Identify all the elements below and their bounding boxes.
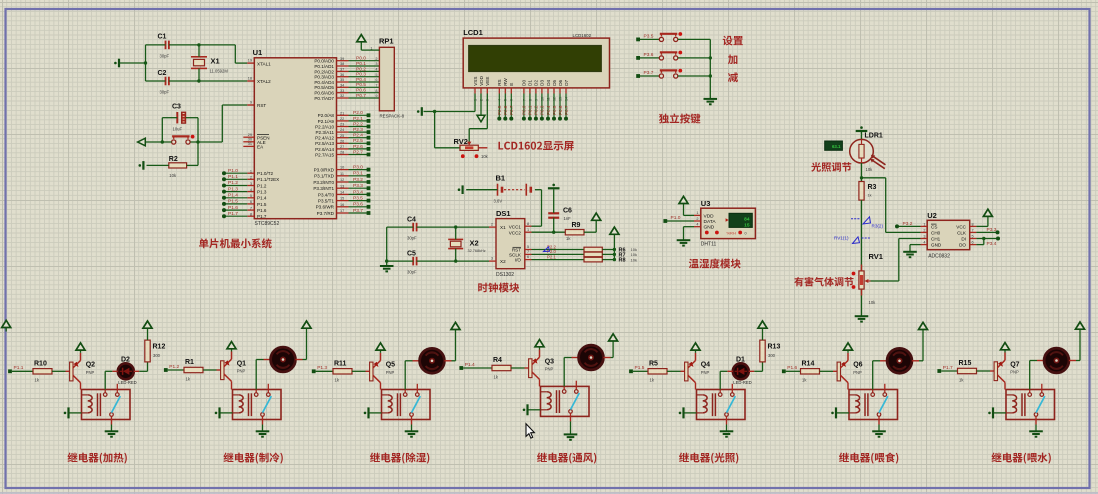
svg-text:P1.4: P1.4 bbox=[465, 362, 475, 368]
node P3.4 bbox=[996, 237, 1000, 241]
svg-text:P1.0/T2: P1.0/T2 bbox=[257, 171, 274, 176]
svg-text:P1.3: P1.3 bbox=[257, 190, 267, 195]
pin stubs U2 bbox=[921, 225, 928, 227]
svg-text:U2: U2 bbox=[927, 211, 937, 220]
wire LCD VDD bbox=[480, 94, 482, 116]
svg-text:3: 3 bbox=[491, 257, 493, 261]
node P1.2 bbox=[164, 368, 168, 372]
terminal arrow reset bbox=[138, 138, 146, 146]
svg-text:D1: D1 bbox=[736, 356, 745, 363]
svg-text:R3: R3 bbox=[868, 184, 877, 191]
svg-text:P2.7: P2.7 bbox=[509, 105, 514, 115]
svg-text:RP1: RP1 bbox=[379, 37, 394, 46]
svg-text:P1.5: P1.5 bbox=[635, 365, 645, 371]
wire bbox=[912, 360, 919, 362]
svg-text:P3.5: P3.5 bbox=[353, 196, 363, 202]
LDR lux display bbox=[825, 141, 843, 150]
power arrow Q2 emitter bbox=[76, 343, 85, 350]
svg-text:RV1: RV1 bbox=[869, 252, 883, 261]
svg-text:D6: D6 bbox=[558, 79, 563, 85]
svg-text:6: 6 bbox=[375, 78, 377, 82]
IC U3 DHT11 bbox=[701, 208, 756, 238]
wire bbox=[134, 370, 140, 372]
svg-text:1: 1 bbox=[696, 211, 698, 215]
potentiometer RV1 bbox=[859, 271, 864, 289]
svg-text:R2: R2 bbox=[169, 156, 178, 163]
svg-text:P1.2: P1.2 bbox=[169, 364, 179, 370]
svg-text:P0.0: P0.0 bbox=[522, 105, 527, 115]
svg-text:DATA: DATA bbox=[704, 219, 717, 225]
coil return bar bbox=[836, 412, 849, 414]
svg-text:P0.7: P0.7 bbox=[356, 93, 366, 99]
wire GND U3 bbox=[684, 226, 695, 228]
svg-text:P1.7: P1.7 bbox=[943, 365, 953, 371]
wire bbox=[413, 360, 420, 362]
wire bbox=[316, 370, 333, 372]
svg-text:P2.3: P2.3 bbox=[353, 127, 363, 133]
button key3 bbox=[659, 74, 663, 78]
svg-text:%RH: %RH bbox=[727, 230, 736, 235]
power arrow Q6 emitter bbox=[844, 343, 853, 350]
svg-text:Q7: Q7 bbox=[1010, 361, 1019, 368]
ground bbox=[105, 430, 119, 432]
power arrow pullups bbox=[610, 227, 619, 234]
svg-text:Q6: Q6 bbox=[853, 362, 862, 369]
svg-text:R4: R4 bbox=[493, 357, 502, 364]
svg-text:P2.7/A15: P2.7/A15 bbox=[315, 152, 334, 157]
label clock module bbox=[478, 283, 519, 293]
svg-text:P1.1: P1.1 bbox=[228, 174, 238, 180]
coil return bar bbox=[684, 412, 697, 414]
svg-text:0: 0 bbox=[745, 231, 747, 235]
wire bbox=[147, 164, 169, 166]
svg-text:Q3: Q3 bbox=[545, 358, 554, 365]
svg-text:P1.3: P1.3 bbox=[228, 186, 238, 192]
node P3.5 bbox=[636, 38, 640, 42]
pin stubs DS1 bbox=[489, 226, 496, 228]
wire bbox=[169, 44, 235, 46]
label LCD module bbox=[498, 141, 573, 150]
svg-text:R3(2): R3(2) bbox=[872, 224, 884, 229]
wire bbox=[602, 249, 614, 251]
wire GND U2 bbox=[910, 244, 921, 246]
wire bbox=[169, 80, 247, 82]
svg-text:P0.5/AD5: P0.5/AD5 bbox=[314, 85, 334, 90]
svg-text:RV1(1): RV1(1) bbox=[834, 235, 849, 240]
svg-text:P2.5/A13: P2.5/A13 bbox=[315, 141, 334, 146]
svg-text:CS: CS bbox=[931, 224, 937, 229]
wire bbox=[572, 357, 579, 359]
power arrow Q1 emitter bbox=[227, 342, 236, 349]
svg-text:15: 15 bbox=[744, 222, 750, 228]
svg-text:2: 2 bbox=[696, 217, 698, 221]
svg-text:7: 7 bbox=[375, 83, 377, 87]
svg-text:5: 5 bbox=[375, 73, 377, 77]
svg-text:P1.2: P1.2 bbox=[257, 183, 267, 188]
wire bbox=[727, 370, 733, 372]
svg-text:P2.5: P2.5 bbox=[353, 138, 363, 144]
svg-text:RW: RW bbox=[503, 78, 508, 86]
wire bbox=[640, 38, 659, 40]
svg-text:C5: C5 bbox=[407, 251, 416, 258]
power arrow motor bbox=[1076, 322, 1085, 329]
IC DS1 DS1302 bbox=[496, 219, 525, 269]
label minus bbox=[728, 72, 738, 82]
svg-text:R13: R13 bbox=[768, 344, 781, 351]
svg-text:P3.4/T0: P3.4/T0 bbox=[318, 192, 335, 197]
resistor R14 bbox=[801, 369, 820, 374]
wire bbox=[411, 420, 413, 425]
svg-text:P3.1/TXD: P3.1/TXD bbox=[314, 174, 335, 179]
svg-text:10k: 10k bbox=[866, 167, 874, 172]
svg-text:U1: U1 bbox=[253, 48, 263, 57]
svg-text:P0.4: P0.4 bbox=[356, 77, 366, 83]
svg-text:2: 2 bbox=[491, 223, 493, 227]
LCD LCD1 bbox=[463, 38, 609, 88]
svg-text:P1.5: P1.5 bbox=[228, 199, 238, 205]
coil return bar bbox=[528, 409, 541, 411]
svg-text:1nF: 1nF bbox=[564, 216, 572, 221]
svg-text:31: 31 bbox=[248, 142, 252, 146]
label set bbox=[723, 36, 743, 46]
wire CS net bbox=[897, 225, 921, 227]
wire bbox=[434, 112, 436, 148]
svg-text:VSS: VSS bbox=[473, 77, 478, 86]
wire RP1 pin1 bbox=[361, 49, 379, 51]
power arrow U3 bbox=[679, 196, 688, 203]
power arrow motor bbox=[919, 322, 928, 329]
svg-text:P2.2: P2.2 bbox=[353, 121, 363, 127]
svg-text:P0.5: P0.5 bbox=[356, 82, 366, 88]
wire bbox=[880, 360, 887, 362]
transistor Q7 bbox=[994, 362, 997, 381]
resistor R2 bbox=[169, 163, 187, 168]
motor dehumidify bbox=[420, 348, 445, 373]
ground RV1 bbox=[855, 315, 869, 317]
reset button bbox=[172, 140, 176, 144]
svg-text:P0.4/AD4: P0.4/AD4 bbox=[314, 80, 334, 85]
label relay heating bbox=[67, 452, 126, 463]
svg-text:RV2: RV2 bbox=[454, 137, 468, 146]
ground tap bar bbox=[118, 59, 120, 68]
svg-text:Q1: Q1 bbox=[237, 360, 246, 367]
svg-text:PNP: PNP bbox=[701, 370, 710, 375]
svg-text:LCD1602: LCD1602 bbox=[573, 33, 592, 38]
ground bbox=[256, 430, 270, 432]
svg-text:P1.2: P1.2 bbox=[228, 180, 238, 186]
wire bbox=[603, 357, 610, 359]
ground tap bar C6 bbox=[548, 187, 560, 189]
relay ventilation bbox=[541, 386, 590, 416]
svg-text:32.768kHz: 32.768kHz bbox=[468, 249, 486, 253]
resistor R8 bbox=[584, 257, 602, 262]
potentiometer RV2 bbox=[460, 145, 478, 150]
wire bbox=[463, 367, 492, 369]
wire bbox=[678, 57, 711, 59]
svg-text:19: 19 bbox=[248, 59, 252, 63]
svg-text:C2: C2 bbox=[158, 70, 167, 77]
svg-text:P0.2: P0.2 bbox=[356, 66, 366, 72]
svg-text:XTAL2: XTAL2 bbox=[257, 79, 271, 84]
svg-text:8: 8 bbox=[375, 89, 377, 93]
svg-text:P1.4: P1.4 bbox=[257, 196, 267, 201]
capacitor C5 bbox=[412, 257, 414, 266]
resistor R6 bbox=[584, 247, 602, 252]
power arrow R12 bbox=[143, 321, 152, 328]
resistor R7 bbox=[584, 252, 602, 257]
wire LCD VEE bbox=[486, 94, 488, 129]
label relay light bbox=[679, 452, 738, 463]
motor water bbox=[1044, 348, 1069, 373]
wire bbox=[12, 370, 33, 372]
svg-text:PNP: PNP bbox=[1010, 370, 1019, 375]
svg-text:P0.0: P0.0 bbox=[356, 56, 366, 62]
wire bbox=[532, 253, 585, 255]
node P1.3 bbox=[312, 369, 316, 373]
motor ventilation bbox=[579, 345, 604, 370]
svg-text:7: 7 bbox=[527, 250, 529, 254]
wire bbox=[444, 360, 451, 362]
ground keys bbox=[704, 98, 718, 100]
wire bbox=[570, 416, 572, 421]
svg-text:30pF: 30pF bbox=[407, 270, 417, 275]
transistor Q1 bbox=[221, 361, 224, 380]
wire bbox=[52, 370, 66, 372]
svg-text:Q2: Q2 bbox=[86, 362, 95, 369]
svg-text:5: 5 bbox=[527, 245, 529, 249]
svg-text:P0.6: P0.6 bbox=[558, 105, 563, 115]
svg-text:P1.6: P1.6 bbox=[257, 208, 267, 213]
photoresistor LDR1 bbox=[850, 139, 874, 163]
crystal X1 bbox=[191, 56, 207, 58]
svg-text:4: 4 bbox=[375, 68, 377, 72]
power arrow stray left bbox=[2, 320, 11, 327]
svg-text:P0.3/AD3: P0.3/AD3 bbox=[314, 75, 334, 80]
svg-text:I/O: I/O bbox=[515, 258, 522, 263]
svg-text:LCD1: LCD1 bbox=[463, 28, 483, 37]
capacitor C6 bbox=[548, 212, 559, 214]
svg-text:63.1: 63.1 bbox=[832, 144, 841, 149]
wire keys bus bbox=[709, 39, 711, 99]
svg-text:6: 6 bbox=[527, 255, 529, 259]
wire bbox=[726, 420, 728, 425]
ground bbox=[564, 433, 578, 435]
svg-text:P2.4: P2.4 bbox=[353, 133, 363, 139]
power arrow motor bbox=[451, 322, 460, 329]
wire bbox=[667, 370, 681, 372]
wire bbox=[762, 328, 764, 340]
label relay feeding bbox=[839, 452, 898, 463]
node XTAL gnd tap bbox=[144, 61, 147, 64]
capacitor C4 bbox=[412, 223, 414, 232]
svg-text:P2.6/A14: P2.6/A14 bbox=[315, 147, 334, 152]
svg-text:P1.1/T2EX: P1.1/T2EX bbox=[257, 177, 279, 182]
resistor pack RP1 bbox=[379, 47, 394, 111]
svg-text:P1.4: P1.4 bbox=[228, 193, 238, 199]
svg-text:R11: R11 bbox=[334, 361, 347, 368]
node P3.3 bbox=[996, 230, 1000, 234]
svg-text:2: 2 bbox=[375, 57, 377, 61]
resistor R5 bbox=[648, 369, 667, 374]
power arrow R13 bbox=[758, 321, 767, 328]
wire bbox=[633, 370, 648, 372]
svg-text:P2.3/A11: P2.3/A11 bbox=[315, 130, 334, 135]
svg-text:U3: U3 bbox=[701, 199, 711, 208]
coil return bar bbox=[369, 412, 382, 414]
label DHT module bbox=[689, 259, 741, 269]
ground C4C5 bbox=[380, 265, 394, 267]
DHT11 display bbox=[729, 213, 752, 227]
IC U1 STC89C52 bbox=[254, 58, 336, 219]
transistor Q4 bbox=[685, 362, 688, 381]
resistor R15 bbox=[958, 368, 977, 373]
wire bbox=[553, 190, 555, 213]
svg-text:CLK: CLK bbox=[957, 230, 967, 235]
svg-text:D4: D4 bbox=[546, 79, 551, 85]
svg-text:DHT11: DHT11 bbox=[701, 242, 717, 248]
svg-text:P3.3: P3.3 bbox=[353, 183, 363, 189]
label relay dehumidify bbox=[370, 452, 429, 463]
svg-text:P3.3/INT1: P3.3/INT1 bbox=[313, 186, 334, 191]
ground bbox=[720, 430, 734, 432]
svg-text:84: 84 bbox=[744, 216, 750, 222]
svg-text:P3.7: P3.7 bbox=[644, 70, 654, 76]
power arrow motor bbox=[302, 321, 311, 328]
svg-text:GND: GND bbox=[704, 225, 715, 231]
svg-text:3.6V: 3.6V bbox=[494, 199, 503, 204]
svg-text:VEE: VEE bbox=[485, 77, 490, 86]
svg-text:P3.2/INT0: P3.2/INT0 bbox=[313, 180, 334, 185]
motor feeding bbox=[887, 348, 912, 373]
svg-text:EA: EA bbox=[257, 145, 264, 150]
svg-text:P2.1: P2.1 bbox=[547, 254, 556, 259]
wire bbox=[640, 57, 659, 59]
svg-text:P0.5: P0.5 bbox=[552, 105, 557, 115]
svg-text:P3.5: P3.5 bbox=[644, 33, 654, 39]
svg-text:P0.6: P0.6 bbox=[356, 88, 366, 94]
svg-text:P3.3: P3.3 bbox=[987, 227, 997, 233]
svg-text:P0.7/AD7: P0.7/AD7 bbox=[314, 96, 334, 101]
svg-text:P0.6/AD6: P0.6/AD6 bbox=[314, 91, 334, 96]
wire bbox=[112, 370, 118, 372]
svg-text:P0.2: P0.2 bbox=[534, 105, 539, 115]
wire bbox=[861, 289, 863, 316]
transistor Q3 bbox=[529, 359, 532, 378]
wire bbox=[749, 370, 755, 372]
svg-text:30pF: 30pF bbox=[407, 236, 417, 241]
svg-text:DO: DO bbox=[959, 243, 966, 248]
node P3.2 bbox=[895, 224, 899, 228]
wire CH1 net bbox=[871, 280, 899, 282]
label gas module bbox=[794, 277, 853, 286]
svg-text:9: 9 bbox=[250, 101, 252, 105]
ground U3 bbox=[677, 239, 691, 241]
svg-text:8: 8 bbox=[527, 222, 529, 226]
wire bbox=[162, 117, 177, 119]
svg-text:D2: D2 bbox=[534, 79, 539, 85]
svg-text:CH1: CH1 bbox=[931, 237, 941, 242]
svg-text:P1.5: P1.5 bbox=[257, 202, 267, 207]
power arrow motor bbox=[609, 334, 618, 341]
svg-text:R1: R1 bbox=[185, 359, 194, 366]
svg-text:P1.0: P1.0 bbox=[228, 168, 238, 174]
svg-text:10k: 10k bbox=[869, 300, 877, 305]
crystal X2 bbox=[448, 238, 463, 240]
wire bbox=[602, 253, 614, 255]
node P1.5 bbox=[629, 369, 633, 373]
svg-text:10uF: 10uF bbox=[173, 127, 183, 132]
wire bbox=[861, 163, 863, 182]
svg-text:LDR1: LDR1 bbox=[865, 132, 883, 139]
relay water bbox=[1006, 390, 1055, 420]
coil return bar bbox=[993, 412, 1006, 414]
svg-text:X2: X2 bbox=[500, 259, 506, 264]
svg-text:10k: 10k bbox=[169, 173, 177, 178]
svg-text:P0.0/AD0: P0.0/AD0 bbox=[314, 59, 334, 64]
svg-text:P2.6: P2.6 bbox=[503, 105, 508, 115]
svg-text:C6: C6 bbox=[563, 208, 572, 215]
svg-text:P2.5: P2.5 bbox=[497, 105, 502, 115]
node P1.1 bbox=[8, 369, 12, 373]
wire bbox=[640, 75, 659, 77]
svg-text:D0: D0 bbox=[522, 79, 527, 85]
resistor R11 bbox=[333, 369, 352, 374]
mouse cursor bbox=[526, 424, 534, 438]
svg-text:P3.4: P3.4 bbox=[987, 241, 997, 247]
ground bbox=[872, 430, 886, 432]
svg-text:300: 300 bbox=[768, 353, 776, 358]
svg-text:E: E bbox=[509, 83, 514, 86]
wire bbox=[111, 420, 113, 425]
svg-text:P0.3: P0.3 bbox=[356, 72, 366, 78]
wire bbox=[146, 44, 166, 46]
svg-text:C3: C3 bbox=[172, 104, 181, 111]
wire VCC2 row bbox=[532, 231, 566, 233]
label relay cooling bbox=[223, 452, 282, 463]
wire bbox=[861, 200, 863, 271]
svg-text:LED-RED: LED-RED bbox=[118, 380, 136, 385]
svg-text:RS: RS bbox=[497, 79, 502, 85]
button key2 bbox=[659, 56, 663, 60]
svg-text:PNP: PNP bbox=[853, 370, 862, 375]
wire bbox=[387, 226, 414, 228]
relay dehumidify bbox=[382, 390, 431, 420]
svg-text:C1: C1 bbox=[158, 34, 167, 41]
wire CLK net bbox=[976, 231, 997, 233]
svg-text:P2.0: P2.0 bbox=[353, 110, 363, 116]
svg-text:P3.2: P3.2 bbox=[903, 221, 913, 227]
wire bbox=[145, 141, 171, 143]
svg-text:P1.6: P1.6 bbox=[787, 365, 797, 371]
svg-text:P3.0: P3.0 bbox=[353, 165, 363, 171]
label relay water bbox=[991, 452, 1050, 463]
label relay ventilation bbox=[537, 452, 596, 463]
wire VCC U2 bbox=[976, 225, 988, 227]
motor cooling bbox=[271, 347, 296, 372]
svg-text:R9: R9 bbox=[572, 222, 581, 229]
wire bbox=[262, 420, 264, 425]
wire DATA U3 bbox=[665, 220, 694, 222]
svg-text:P3.5/T1: P3.5/T1 bbox=[318, 199, 335, 204]
svg-text:2: 2 bbox=[923, 228, 925, 232]
svg-text:P2.7: P2.7 bbox=[353, 149, 363, 155]
svg-text:P0.2/AD2: P0.2/AD2 bbox=[314, 69, 334, 74]
svg-text:9: 9 bbox=[375, 94, 377, 98]
svg-text:P3.6: P3.6 bbox=[353, 202, 363, 208]
relay heating bbox=[82, 390, 131, 420]
wire bbox=[1037, 360, 1044, 362]
svg-text:VCC1: VCC1 bbox=[509, 224, 522, 229]
